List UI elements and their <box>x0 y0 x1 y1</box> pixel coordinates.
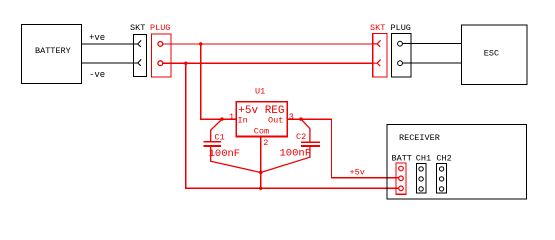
pin fork SKT pin 2 <box>133 59 141 66</box>
pin circle PLUG2-1 <box>398 41 403 46</box>
connector CH1 header box <box>417 164 427 194</box>
wire PLUG2 to ESC top <box>402 43 461 45</box>
svg-text:PLUG: PLUG <box>150 23 170 33</box>
svg-text:-ve: -ve <box>89 70 105 80</box>
svg-text:Out: Out <box>268 116 283 126</box>
svg-text:3: 3 <box>289 112 294 122</box>
pin fork SKT2 pin 1 <box>373 40 381 47</box>
wire bottom rail down to ground bus <box>186 63 399 188</box>
pin circle CH1-3 <box>419 187 423 191</box>
svg-text:C1: C1 <box>215 132 225 142</box>
capacitor C1 top lead <box>211 119 222 141</box>
svg-text:100nF: 100nF <box>209 148 241 160</box>
svg-text:BATT: BATT <box>392 153 412 163</box>
capacitor C2 plates <box>301 142 320 146</box>
pin fork SKT2 pin 2 <box>373 60 381 67</box>
junction node top rail to regulator <box>199 42 202 45</box>
battery B1 box <box>22 25 82 84</box>
svg-text:SKT: SKT <box>130 23 145 33</box>
wire net +BATT top rail <box>163 43 373 45</box>
svg-text:+ve: +ve <box>89 33 105 43</box>
wire Com to ground bus <box>260 137 262 189</box>
svg-text:100nF: 100nF <box>280 147 312 159</box>
wire net -BATT bottom rail <box>163 62 373 64</box>
svg-text:C2: C2 <box>296 132 306 142</box>
pin circle BATT-2 <box>399 176 404 181</box>
junction node Com / ground bus <box>259 187 262 190</box>
pin circle CH2-3 <box>439 187 443 191</box>
capacitor C1 plates <box>204 142 221 146</box>
svg-text:PLUG: PLUG <box>391 23 411 33</box>
capacitor C2 bottom lead <box>261 147 310 173</box>
wire PLUG2 to ESC bottom <box>402 62 461 64</box>
junction node In / C1 <box>220 117 223 120</box>
wire Out to +5v <box>287 119 399 178</box>
pin circle PLUG2-2 <box>398 61 403 66</box>
pin fork SKT pin 1 <box>133 40 141 47</box>
capacitor C1 bottom lead <box>211 147 261 173</box>
pin circle BATT-1 <box>399 166 404 171</box>
svg-text:2: 2 <box>263 138 268 148</box>
svg-text:1: 1 <box>229 112 234 122</box>
pin circle CH2-2 <box>439 177 443 181</box>
svg-text:+5v: +5v <box>350 167 365 177</box>
wire battery +ve <box>81 43 133 45</box>
connector SKT (battery side) box <box>134 35 147 77</box>
op-amp U1 regulator box <box>236 102 287 137</box>
connector BATT header box <box>396 163 406 194</box>
pin circle BATT-3 <box>399 186 404 191</box>
junction node bottom rail to ground bus <box>184 62 187 65</box>
connector CH2 header box <box>437 164 447 194</box>
junction node C1/C2/Com <box>259 171 262 174</box>
pin circle PLUG-1 <box>158 42 163 47</box>
connector SKT (ESC side) box <box>373 34 387 78</box>
svg-text:BATTERY: BATTERY <box>35 46 71 56</box>
capacitor C2 top lead <box>301 119 310 141</box>
receiver box <box>387 125 527 200</box>
svg-text:CH1: CH1 <box>416 153 431 163</box>
junction node Out / C2 <box>299 117 302 120</box>
svg-text:RECEIVER: RECEIVER <box>399 133 440 143</box>
svg-text:CH2: CH2 <box>436 153 451 163</box>
pin circle PLUG-2 <box>158 61 163 66</box>
svg-text:SKT: SKT <box>370 23 385 33</box>
pin circle CH2-1 <box>439 167 443 171</box>
svg-text:U1: U1 <box>255 87 265 97</box>
wire top rail down to In <box>201 44 237 119</box>
connector PLUG (battery side) box <box>151 34 171 77</box>
pin circle CH1-2 <box>419 177 423 181</box>
pin circle CH1-1 <box>419 167 423 171</box>
connector PLUG (ESC side) box <box>392 34 412 78</box>
wire battery -ve <box>81 62 133 64</box>
svg-text:Com: Com <box>254 126 269 136</box>
svg-text:In: In <box>238 116 248 126</box>
ESC box <box>462 25 528 85</box>
svg-text:ESC: ESC <box>484 48 499 58</box>
